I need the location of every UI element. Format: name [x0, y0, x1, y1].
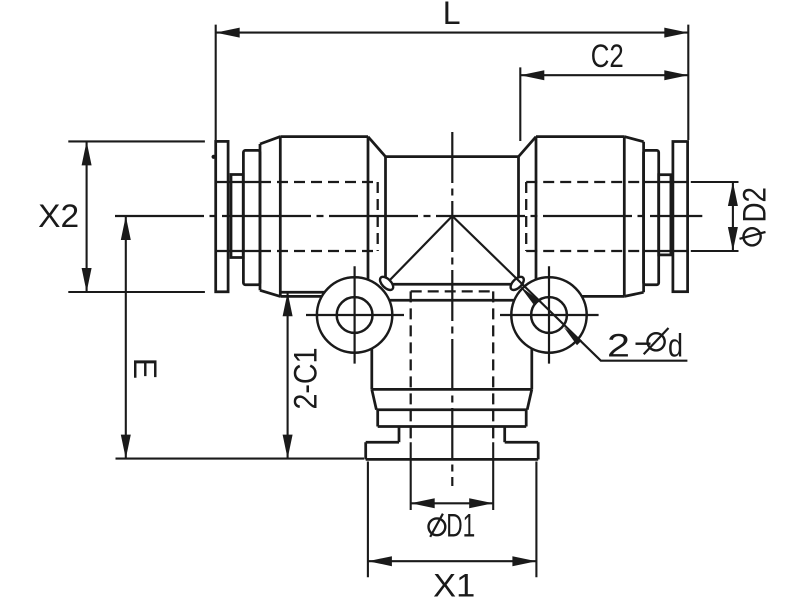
dim E arrow bottom — [121, 435, 131, 459]
dim X1 arrow left — [368, 556, 392, 566]
left body bottom edge — [280, 295, 372, 298]
branch chamfer base line — [376, 408, 527, 411]
branch right chamfer — [527, 389, 532, 409]
left hole leader leg — [387, 216, 453, 283]
dim L line — [216, 32, 689, 34]
dim L extension left — [215, 25, 217, 140]
right collet ring — [644, 150, 659, 284]
dim L arrow right — [664, 28, 688, 38]
right body top edge — [536, 135, 624, 138]
left cap bottom chamfer — [260, 290, 280, 296]
branch bore top hidden line — [411, 290, 494, 292]
label OD2 diameter symbol — [744, 228, 761, 245]
dim X2 arrow bottom — [82, 268, 92, 292]
dim OD2 extension top — [691, 181, 739, 183]
branch collet left edge — [376, 410, 379, 427]
right body tangent line inner — [623, 137, 626, 297]
vertical branch centerline — [451, 132, 453, 486]
label OD1 diameter symbol — [429, 518, 446, 535]
dim X1 extension left — [367, 462, 369, 578]
dim E line — [125, 216, 127, 459]
2-Od leader line — [452, 216, 687, 361]
center section right edge — [517, 157, 520, 281]
left hole inner circle — [337, 297, 373, 333]
dim L arrow left — [216, 28, 240, 38]
dim L extension right — [687, 25, 689, 140]
dim 2-C1 line — [287, 292, 289, 458]
dim OD2 arrow top — [728, 182, 738, 206]
svg-text:X1: X1 — [433, 568, 475, 600]
horizontal bore hidden lines left — [260, 182, 378, 251]
horizontal axis centerline — [115, 215, 702, 217]
horizontal bore end hidden line right — [525, 182, 527, 251]
center section bottom edge — [388, 283, 516, 286]
dim OD2 line — [732, 182, 734, 251]
right angled port capsule — [508, 274, 526, 292]
dim X2 line — [86, 141, 88, 292]
right release washer flange — [673, 142, 688, 292]
bottom washer left edge — [364, 442, 367, 459]
left cap top chamfer — [260, 137, 280, 144]
bottom washer top edge right — [505, 441, 539, 444]
dim E arrow top — [121, 216, 131, 240]
left body right chamfer — [368, 137, 386, 157]
dim E / 2-C1 bottom extension — [116, 458, 365, 460]
right sleeve ring — [659, 175, 671, 255]
right cap bottom chamfer — [624, 292, 643, 296]
right body tangent line outer — [535, 137, 538, 300]
dim C2 arrow right — [664, 70, 688, 80]
dim C2 extension — [519, 67, 521, 141]
dim 2-C1 arrow bottom — [283, 435, 293, 459]
stray nub on left washer edge — [212, 155, 216, 159]
right hole crosshair — [500, 266, 599, 363]
horizontal bore end hidden line left — [377, 182, 379, 251]
left hole boss circle — [317, 277, 392, 352]
branch shoulder line — [372, 388, 532, 391]
right body bottom edge — [532, 295, 625, 298]
bottom washer top edge left — [366, 441, 399, 444]
svg-text:2: 2 — [607, 328, 630, 364]
2-Od leader arrowhead at hole — [564, 327, 582, 345]
svg-text:d: d — [668, 328, 683, 364]
right hole inner circle — [531, 297, 567, 333]
branch collet right edge — [525, 410, 528, 427]
dim X1 line — [368, 560, 537, 562]
horizontal bore hidden lines right — [526, 182, 643, 251]
svg-text:L: L — [443, 0, 461, 31]
left collet ring — [243, 150, 260, 284]
branch bore hidden line left — [410, 291, 412, 442]
dim X2 extension top — [68, 140, 205, 142]
left cap edge — [259, 144, 262, 290]
branch collet base line — [378, 425, 527, 428]
right body left chamfer — [519, 137, 537, 157]
dim 2-C1 arrow top — [283, 292, 293, 316]
bottom washer right edge — [537, 442, 540, 459]
left angled port capsule — [378, 274, 396, 292]
right cap edge — [642, 142, 645, 293]
left body tangent line inner — [279, 137, 282, 297]
horizontal bore solid lines left — [216, 182, 260, 251]
dim OD1 extension right — [492, 442, 494, 510]
left body bottom inner line — [280, 291, 324, 294]
dim C2 arrow left — [520, 70, 544, 80]
right hole boss circle — [511, 277, 586, 352]
svg-text:E: E — [127, 358, 163, 379]
svg-text:2-C1: 2-C1 — [288, 348, 324, 410]
branch right edge — [530, 300, 533, 389]
dim OD1 extension left — [410, 442, 412, 510]
svg-text:C2: C2 — [591, 38, 624, 74]
dim X1 arrow right — [512, 556, 536, 566]
dim OD2 arrow bottom — [728, 227, 738, 251]
label 2-Od diameter symbol — [648, 333, 665, 350]
branch bore hidden line right — [492, 291, 494, 442]
horizontal bore solid lines right — [644, 182, 689, 251]
dim OD1 arrow right — [469, 498, 493, 508]
center section left edge — [384, 157, 387, 281]
svg-text:D1: D1 — [446, 508, 475, 544]
left sleeve ring — [231, 175, 243, 258]
dim X1 extension right — [535, 462, 537, 578]
label 2-Od hyphen — [636, 343, 651, 345]
bottom washer bottom edge — [366, 458, 539, 461]
branch left edge — [370, 300, 373, 389]
left release washer flange — [216, 141, 228, 291]
left hole crosshair — [306, 266, 404, 363]
center section top edge — [386, 155, 519, 158]
branch left chamfer — [372, 389, 377, 409]
left body tangent line outer — [367, 137, 370, 300]
2-Od leader arrowhead at capsule — [520, 286, 538, 304]
dim OD2 extension bottom — [691, 250, 739, 252]
right cap top chamfer — [624, 137, 643, 142]
svg-text:D2: D2 — [736, 187, 772, 223]
dim OD1 line — [411, 502, 494, 504]
dim X2 extension bottom — [68, 291, 205, 293]
branch neck right edge — [503, 427, 506, 443]
branch top edge — [372, 299, 532, 302]
dim C2 line — [520, 74, 688, 76]
left body top edge — [280, 135, 368, 138]
dim OD1 arrow left — [411, 498, 435, 508]
branch neck left edge — [398, 427, 401, 443]
dim X2 arrow top — [82, 141, 92, 165]
svg-text:X2: X2 — [38, 198, 79, 234]
